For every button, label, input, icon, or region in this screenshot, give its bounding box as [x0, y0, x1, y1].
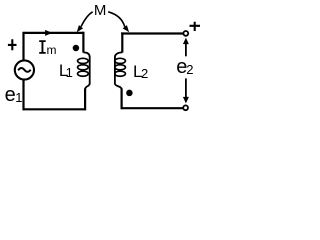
- output terminal node (top, open circle): [183, 31, 188, 36]
- svg-text:2: 2: [141, 66, 148, 81]
- svg-text:m: m: [47, 43, 57, 57]
- label Im: [39, 40, 46, 53]
- M arrow to L2 (curved, right): [108, 12, 125, 27]
- plus sign at source top: [8, 39, 17, 50]
- svg-text:2: 2: [186, 62, 193, 77]
- svg-text:1: 1: [66, 65, 73, 80]
- plus sign at output top: [190, 22, 201, 31]
- wire: right loop left lower (L2 to bottom wire): [120, 89, 122, 110]
- inductor L2 bottom exit hook: [115, 84, 122, 90]
- output terminal node (bottom, open circle): [183, 105, 188, 110]
- inductor L1 top hook: [83, 52, 89, 57]
- current arrow Im on top wire: [45, 30, 52, 36]
- polarity dot of L2 (bottom): [126, 90, 133, 97]
- wire: left loop right lower (L1 to bottom wire): [84, 89, 86, 111]
- wire: right loop bottom: [121, 107, 183, 109]
- wire: left loop left side upper (to source): [22, 32, 24, 61]
- e2 arrow up (toward top node): [185, 43, 187, 57]
- inductor L2 top hook: [115, 52, 122, 57]
- e2 arrow down (toward bottom node): [185, 78, 187, 97]
- inductor L2 ring 2: [115, 65, 126, 70]
- wire: left loop right upper (top wire to L1): [82, 32, 84, 53]
- inductor L1 ring 2: [78, 65, 89, 70]
- AC source sine wave: [18, 68, 31, 72]
- inductor L1 ring 1: [78, 58, 89, 63]
- inductor L2 side rail: [114, 57, 116, 85]
- wire: left loop left side lower (source to bottom): [22, 79, 24, 110]
- svg-text:M: M: [94, 2, 107, 19]
- inductor L2 ring 3: [115, 71, 126, 76]
- M arrow to L1 (curved, left): [81, 12, 93, 27]
- svg-text:1: 1: [15, 90, 22, 105]
- inductor L1 bottom exit hook: [85, 84, 90, 90]
- polarity dot of L1 (top): [73, 45, 80, 52]
- inductor L1 ring 3: [78, 71, 89, 76]
- wire: right loop top (L2 to node +): [121, 32, 183, 34]
- inductor L1 side rail: [89, 57, 91, 85]
- wire: right loop left upper (top wire to L2): [121, 32, 123, 52]
- inductor L2 ring 1: [115, 58, 126, 63]
- wire: left loop bottom: [23, 108, 85, 110]
- wire: left loop top (node A to top of L1): [24, 32, 85, 34]
- svg-text:e: e: [5, 84, 16, 106]
- AC source e1 circle: [15, 60, 34, 79]
